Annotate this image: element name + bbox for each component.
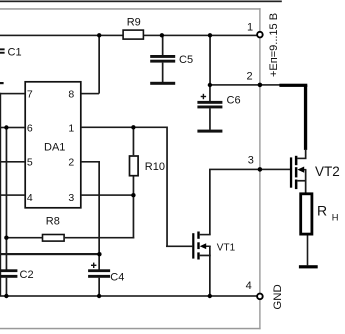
svg-text:C4: C4 bbox=[110, 271, 124, 283]
svg-text:4: 4 bbox=[246, 280, 252, 292]
svg-text:GND: GND bbox=[272, 284, 284, 309]
svg-text:Н: Н bbox=[332, 213, 339, 223]
svg-text:C6: C6 bbox=[227, 95, 241, 107]
svg-text:2: 2 bbox=[247, 71, 253, 83]
svg-text:C2: C2 bbox=[20, 269, 34, 281]
svg-text:VT2: VT2 bbox=[315, 164, 340, 179]
svg-text:7: 7 bbox=[27, 88, 33, 100]
svg-text:R9: R9 bbox=[127, 17, 141, 29]
svg-text:R: R bbox=[317, 203, 327, 219]
svg-text:VT1: VT1 bbox=[217, 243, 236, 254]
svg-text:C5: C5 bbox=[179, 54, 193, 66]
svg-text:R10: R10 bbox=[145, 161, 165, 173]
svg-text:3: 3 bbox=[68, 192, 74, 204]
svg-text:5: 5 bbox=[27, 157, 33, 169]
svg-text:6: 6 bbox=[27, 122, 33, 134]
svg-text:+Еп=9...15 В: +Еп=9...15 В bbox=[268, 13, 280, 77]
svg-text:2: 2 bbox=[68, 157, 74, 169]
svg-text:C1: C1 bbox=[8, 47, 22, 59]
svg-text:R8: R8 bbox=[46, 215, 60, 227]
svg-text:DA1: DA1 bbox=[44, 141, 65, 153]
svg-text:4: 4 bbox=[27, 192, 33, 204]
svg-text:1: 1 bbox=[247, 22, 253, 34]
svg-text:3: 3 bbox=[248, 155, 254, 167]
svg-text:8: 8 bbox=[68, 88, 74, 100]
svg-text:1: 1 bbox=[68, 122, 74, 134]
